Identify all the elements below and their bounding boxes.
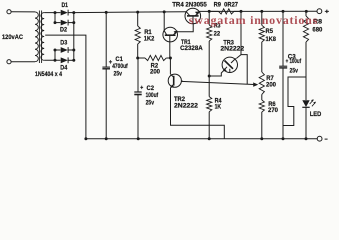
svg-text:R5: R5	[266, 28, 274, 35]
node D2 anode junction	[54, 21, 57, 24]
node R4 ground junction	[208, 137, 211, 140]
node output + terminal	[317, 9, 322, 14]
wire positive rail right section	[200, 10, 318, 12]
wire D1-D2 anode bus	[54, 13, 56, 23]
wire D2 anode lead	[55, 22, 61, 24]
node TR4 emitter junction	[208, 10, 211, 13]
resistor R6	[259, 94, 264, 138]
node secondary-top / D2 branch junction	[54, 11, 57, 14]
node R1 top junction	[136, 11, 139, 14]
wire cathode bus D1-D4	[73, 13, 75, 61]
node R2/TR1-base/TR2-collector junction	[169, 57, 172, 60]
svg-text:1N5404 x 4: 1N5404 x 4	[35, 71, 62, 78]
svg-text:270: 270	[268, 107, 278, 114]
diode D2	[61, 20, 74, 26]
node D2 cathode junction	[72, 21, 75, 24]
node output - terminal	[317, 136, 322, 141]
svg-text:D3: D3	[60, 40, 67, 47]
diode D4	[61, 57, 74, 63]
resistor R1	[135, 12, 140, 58]
wire secondary bottom to D3/D4 bus	[44, 59, 60, 61]
capacitor C1	[102, 12, 110, 138]
node C1 ground junction	[105, 137, 108, 140]
node AC input bottom terminal	[7, 60, 11, 64]
svg-text:+: +	[325, 8, 330, 15]
node R5 top junction	[260, 10, 263, 13]
transformer T1 core	[39, 11, 41, 64]
resistor R8	[303, 11, 308, 100]
svg-text:D1: D1	[62, 2, 69, 9]
wire secondary top to D1	[44, 12, 60, 14]
node D4 cathode junction	[72, 59, 75, 62]
node D4 anode junction	[54, 59, 57, 62]
wire AC top lead	[11, 11, 35, 13]
wire D3 anode lead	[55, 49, 61, 51]
node D3 cathode junction	[72, 49, 75, 52]
node R6 ground junction	[260, 137, 263, 140]
svg-text:1K2: 1K2	[144, 35, 155, 42]
transistor TR4	[185, 8, 201, 24]
svg-text:R9 0R27: R9 0R27	[214, 2, 239, 9]
node C3 top junction	[282, 10, 285, 13]
resistor R3	[207, 11, 212, 76]
svg-text:D2: D2	[60, 27, 67, 34]
svg-text:200: 200	[266, 82, 276, 89]
resistor R4	[207, 76, 212, 139]
svg-text:LED: LED	[310, 111, 322, 118]
capacitor C2	[134, 58, 141, 139]
node R1/R2/C2 junction	[136, 57, 139, 60]
node C2 ground junction	[137, 137, 140, 140]
wire positive rail left section	[74, 11, 186, 14]
svg-text:2N2222: 2N2222	[220, 46, 244, 53]
wire TR3 collector to rail	[236, 11, 241, 58]
LED D5	[302, 100, 309, 138]
svg-text:22: 22	[214, 30, 221, 37]
LED emission arrows	[310, 99, 316, 106]
svg-text:C2: C2	[147, 85, 155, 92]
watermark swagatam innovations	[189, 13, 318, 28]
transistor TR3	[222, 57, 237, 72]
svg-text:1K8: 1K8	[266, 36, 277, 43]
node center-tap ground junction	[84, 137, 87, 140]
svg-text:C2328A: C2328A	[180, 45, 203, 52]
wire TR2 emitter to ground rail	[171, 88, 225, 139]
node C3 ground junction	[282, 137, 285, 140]
potentiometer R7	[259, 72, 264, 94]
node D1 cathode junction	[72, 11, 75, 14]
svg-text:100uf: 100uf	[146, 92, 159, 99]
svg-text:1K: 1K	[215, 104, 222, 111]
svg-text:2N2222: 2N2222	[174, 103, 198, 110]
transformer T1 primary winding	[35, 12, 38, 62]
node R3/R4/TR3-emitter junction	[208, 75, 211, 78]
wire TR3 collector branch to wiper line	[241, 55, 247, 85]
wire LED anode node to C3 ground staircase	[283, 77, 306, 126]
wire AC bottom lead	[11, 61, 35, 63]
wire ground rail	[86, 138, 318, 140]
transistor TR2	[168, 74, 183, 88]
capacitor C3	[279, 11, 287, 138]
svg-text:-: -	[324, 136, 328, 143]
transformer T1 secondary winding	[41, 13, 44, 61]
diode D3	[61, 47, 74, 53]
node TR3 collector junction	[240, 10, 243, 13]
svg-text:+: +	[140, 85, 143, 92]
wire R7 wiper arrowhead	[253, 82, 258, 86]
wire secondary center tap to ground	[45, 35, 86, 139]
svg-text:C1: C1	[115, 56, 123, 63]
node TR1 collector junction	[163, 10, 166, 13]
transistor TR1	[163, 12, 178, 58]
node C1 top junction	[105, 11, 108, 14]
svg-text:120vAC: 120vAC	[2, 34, 23, 41]
svg-text:25v: 25v	[290, 68, 299, 75]
resistor R5	[259, 11, 264, 72]
node LED ground junction	[305, 137, 308, 140]
diode D1	[61, 10, 74, 16]
resistor R9	[209, 9, 241, 14]
node R8 top junction	[305, 10, 308, 13]
svg-text:200: 200	[150, 68, 160, 75]
svg-text:TR4 2N3055: TR4 2N3055	[172, 2, 207, 9]
node D3 anode junction	[54, 49, 57, 52]
wire TR1 emitter to TR4 base	[177, 24, 193, 32]
svg-text:25v: 25v	[146, 99, 155, 106]
wire TR3 emitter to R3/R4 node	[209, 71, 223, 76]
wire D3-D4 anode bus	[54, 50, 56, 60]
svg-text:+ 100uf: + 100uf	[286, 58, 302, 65]
resistor R2	[138, 55, 171, 60]
node AC input top terminal	[7, 10, 11, 14]
svg-text:4700uf: 4700uf	[112, 63, 128, 70]
wire TR2 collector to R2/TR1 base node	[169, 58, 171, 74]
wire TR2 base / R7 wiper line	[181, 81, 254, 84]
svg-text:25v: 25v	[114, 70, 123, 77]
